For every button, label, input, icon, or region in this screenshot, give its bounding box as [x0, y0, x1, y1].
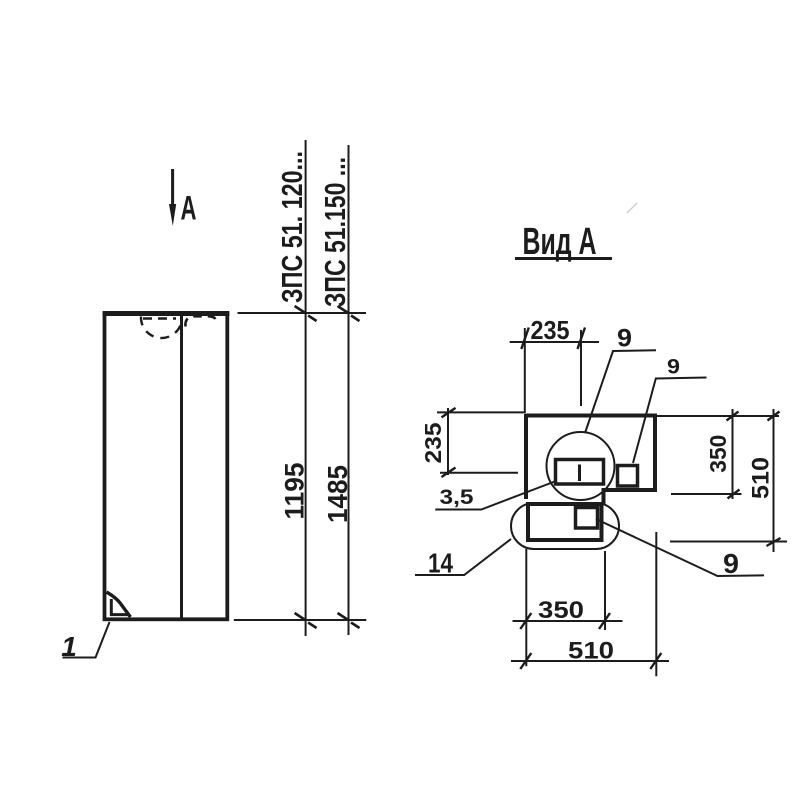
dim line 350 bottom	[513, 620, 623, 622]
svg-text:1: 1	[61, 631, 77, 662]
dim line 510 right	[773, 409, 775, 552]
svg-text:510: 510	[748, 457, 775, 499]
tick 350 bottom left	[520, 613, 531, 629]
svg-text:1485: 1485	[322, 465, 353, 523]
tick 235 top right	[578, 328, 586, 350]
svg-text:350: 350	[705, 435, 731, 473]
right anchor square	[618, 466, 638, 487]
ext line 235 top mid	[580, 330, 582, 406]
top level extension line	[238, 312, 367, 314]
panel joint line	[180, 314, 183, 619]
label 3,5 leader	[435, 481, 556, 510]
faint scan smudge	[627, 203, 637, 213]
svg-text:ЗПС 51. 120...: ЗПС 51. 120...	[277, 151, 309, 303]
lower anchor square	[576, 508, 598, 529]
svg-text:235: 235	[420, 422, 446, 463]
bottom level extension line	[234, 619, 366, 621]
corner cut detail inner horizontal	[110, 613, 129, 616]
dim line 235 top	[510, 341, 599, 343]
anchor plate rect	[556, 460, 604, 485]
tick 510 right top	[768, 412, 780, 421]
panel outline	[105, 314, 228, 619]
main outline (view A, thick)	[526, 416, 655, 505]
bottom plate rect	[528, 504, 602, 540]
panel top edge (heavy)	[103, 311, 230, 316]
stadium outline	[511, 503, 619, 549]
ext line right bottom	[670, 541, 787, 543]
corner cut detail inner vertical	[110, 599, 113, 616]
svg-text:9: 9	[723, 548, 739, 579]
corner cut detail outer curve	[107, 592, 131, 617]
svg-text:ЗПС 51.150 ...: ЗПС 51.150 ...	[320, 157, 352, 307]
svg-text:3,5: 3,5	[440, 486, 474, 509]
ext line right top	[655, 415, 780, 417]
hidden lifting loop left (dashed bar)	[143, 317, 176, 320]
dimension line 1195	[305, 140, 307, 636]
hidden lifting loop right (dashed)	[185, 316, 215, 326]
svg-text:235: 235	[531, 315, 570, 345]
anchor slot tick	[578, 465, 581, 482]
svg-text:510: 510	[568, 638, 614, 665]
dim line 510 bottom	[511, 660, 669, 662]
ext line 235 top left	[524, 328, 526, 413]
dimension line 1485	[348, 145, 350, 635]
ext line bottom mid vertical	[604, 551, 606, 630]
ext line bottom right vertical	[655, 532, 657, 676]
leader 9 second	[633, 378, 707, 464]
dim line 350 right	[732, 409, 734, 499]
svg-text:1195: 1195	[280, 463, 310, 520]
tick 510 bottom right	[650, 653, 661, 669]
ext line 235 left top	[437, 411, 524, 413]
arrow at 1195 top	[295, 306, 317, 321]
title underline	[515, 257, 612, 260]
leader 9 first	[585, 350, 656, 433]
anchor circle	[547, 432, 615, 500]
svg-text:14: 14	[428, 548, 453, 579]
tick 350 bottom right	[599, 613, 610, 629]
label 14 leader	[415, 539, 511, 575]
tick 235 top left	[521, 328, 529, 350]
ext line 235 left bottom	[440, 472, 518, 474]
ext line right mid	[671, 493, 742, 495]
view direction arrow A head	[169, 204, 176, 226]
tick 510 right bottom	[767, 538, 781, 546]
arrow at 1195 bottom	[295, 613, 317, 628]
svg-text:А: А	[181, 190, 197, 228]
ext line bottom left vertical	[525, 549, 527, 667]
arrow at 1485 bottom	[338, 613, 360, 628]
leader 9 bottom	[596, 519, 764, 576]
tick 235 left bottom	[442, 468, 456, 478]
svg-text:350: 350	[538, 597, 584, 624]
leader line to item 1	[63, 622, 110, 658]
view direction arrow A shaft	[171, 169, 174, 207]
svg-text:9: 9	[667, 356, 680, 379]
dim line 235 left	[447, 408, 449, 475]
hidden lifting loop left (dashed arc)	[141, 317, 182, 339]
arrow at 1485 top	[338, 306, 360, 321]
tick 235 left top	[442, 408, 456, 418]
svg-text:Вид А: Вид А	[523, 221, 597, 263]
svg-text:9: 9	[617, 325, 632, 353]
tick 350 right top	[727, 412, 739, 421]
tick 510 bottom left	[520, 653, 531, 669]
tick 350 right bottom	[728, 490, 740, 499]
